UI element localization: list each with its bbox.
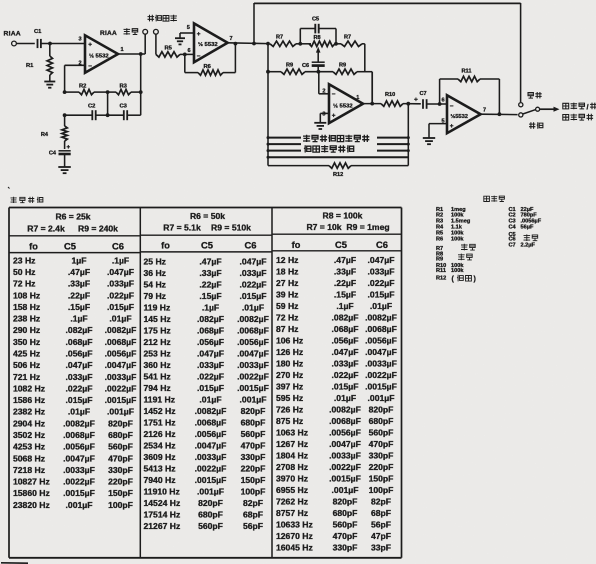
table 3 header xyxy=(272,210,402,250)
svg-text:6: 6 xyxy=(188,48,191,54)
svg-text:.0056µF: .0056µF xyxy=(63,442,95,452)
ground xyxy=(314,123,326,129)
svg-text:R11: R11 xyxy=(462,69,472,75)
svg-text:330pF: 330pF xyxy=(108,465,133,475)
svg-text:253 Hz: 253 Hz xyxy=(144,349,171,359)
wire U4 pin5 to ground xyxy=(429,124,447,138)
svg-text:50 Hz: 50 Hz xyxy=(13,267,35,277)
svg-text:.0068µF: .0068µF xyxy=(195,418,227,428)
svg-text:3502 Hz: 3502 Hz xyxy=(13,430,45,440)
svg-text:330pF: 330pF xyxy=(241,452,266,462)
R12 value （见表） xyxy=(452,275,476,283)
svg-text:425 Hz: 425 Hz xyxy=(13,349,40,359)
svg-text:56µF: 56µF xyxy=(521,225,534,231)
svg-text:.01µF: .01µF xyxy=(334,393,356,403)
svg-text:C6: C6 xyxy=(112,240,124,251)
svg-text:.015µF: .015µF xyxy=(197,383,224,393)
svg-text:R8 = 100k: R8 = 100k xyxy=(323,210,363,220)
svg-text:.0068µF: .0068µF xyxy=(237,326,269,336)
resistor R6 feedback xyxy=(185,44,236,76)
svg-text:R9 = 240k: R9 = 240k xyxy=(78,223,118,233)
svg-text:.068µF: .068µF xyxy=(197,326,224,336)
svg-text:8757 Hz: 8757 Hz xyxy=(276,508,308,518)
svg-text:.0068µF: .0068µF xyxy=(63,430,95,440)
node equalizer input terminal xyxy=(154,29,159,54)
svg-text:−: − xyxy=(197,53,201,60)
svg-text:fo: fo xyxy=(161,240,170,250)
svg-text:1µF: 1µF xyxy=(72,255,87,265)
svg-text:.01µF: .01µF xyxy=(68,407,90,417)
svg-text:C6: C6 xyxy=(376,239,388,250)
switch equalize contact xyxy=(519,113,523,117)
node bus left junction xyxy=(266,42,270,46)
ground xyxy=(423,138,435,144)
op-amp U1 half 5532 xyxy=(79,35,124,73)
svg-text:10827 Hz: 10827 Hz xyxy=(13,477,50,487)
svg-text:330pF: 330pF xyxy=(369,451,394,461)
svg-text:6: 6 xyxy=(442,97,445,103)
resistor R4 xyxy=(41,115,67,149)
capacitor C1 xyxy=(34,29,50,48)
ground xyxy=(175,38,185,44)
svg-text:1191 Hz: 1191 Hz xyxy=(144,395,176,405)
R7 value 见表 xyxy=(461,244,475,251)
svg-text:4253 Hz: 4253 Hz xyxy=(13,442,45,452)
svg-text:.22µF: .22µF xyxy=(68,290,90,300)
svg-text:.022µF: .022µF xyxy=(332,370,359,380)
svg-text:2382 Hz: 2382 Hz xyxy=(13,407,45,417)
svg-text:470pF: 470pF xyxy=(369,439,394,449)
wire bus line 3 xyxy=(267,149,410,152)
svg-text:R10: R10 xyxy=(385,92,395,98)
svg-text:R6 = 50k: R6 = 50k xyxy=(190,211,225,221)
svg-text:.033µF: .033µF xyxy=(107,279,134,289)
svg-text:180 Hz: 180 Hz xyxy=(276,359,303,369)
svg-text:−: − xyxy=(450,103,454,110)
value label 均衡 equalize xyxy=(529,122,543,128)
svg-text:.047µF: .047µF xyxy=(240,257,267,267)
wire bypass line to switch xyxy=(254,3,521,102)
svg-text:R9 = 1meg: R9 = 1meg xyxy=(346,222,389,232)
svg-text:.022µF: .022µF xyxy=(197,372,224,382)
C component list xyxy=(509,207,542,248)
svg-text:C3: C3 xyxy=(509,218,516,224)
svg-text:680pF: 680pF xyxy=(198,510,223,520)
svg-text:.001µF: .001µF xyxy=(107,407,134,417)
svg-text:560pF: 560pF xyxy=(241,429,266,439)
svg-text:7262 Hz: 7262 Hz xyxy=(276,497,308,507)
svg-text:½ 5532: ½ 5532 xyxy=(89,53,109,60)
svg-text:680pF: 680pF xyxy=(108,430,133,440)
svg-text:fo: fo xyxy=(29,241,38,251)
svg-text:15860 Hz: 15860 Hz xyxy=(13,488,50,498)
wire U2 pin5 + ground xyxy=(180,33,194,38)
svg-text:100pF: 100pF xyxy=(369,485,394,495)
wire rail to output node xyxy=(371,72,373,104)
svg-text:R12: R12 xyxy=(333,172,343,178)
svg-text:.015µF: .015µF xyxy=(240,291,267,301)
svg-text:.022µF: .022µF xyxy=(240,280,267,290)
svg-text:R6: R6 xyxy=(436,236,443,242)
resistor R9 xyxy=(266,63,333,75)
svg-text:.0056µF: .0056µF xyxy=(195,429,227,439)
svg-text:R5: R5 xyxy=(165,46,173,52)
svg-text:560pF: 560pF xyxy=(369,428,394,438)
svg-text:5068 Hz: 5068 Hz xyxy=(13,453,45,463)
svg-text:RIAA: RIAA xyxy=(4,31,21,38)
svg-text:.047µF: .047µF xyxy=(66,360,93,370)
svg-text:.0082µF: .0082µF xyxy=(63,418,95,428)
svg-text:27 Hz: 27 Hz xyxy=(276,278,298,288)
svg-text:R6 = 25k: R6 = 25k xyxy=(55,212,90,222)
svg-text:1: 1 xyxy=(356,95,359,101)
svg-text:470pF: 470pF xyxy=(241,441,266,451)
svg-text:72 Hz: 72 Hz xyxy=(276,313,298,323)
C6 value 见表 xyxy=(524,234,538,241)
svg-text:794 Hz: 794 Hz xyxy=(144,383,171,393)
svg-text:23 Hz: 23 Hz xyxy=(13,255,35,265)
svg-text:820pF: 820pF xyxy=(369,405,394,415)
svg-text:47pF: 47pF xyxy=(371,531,391,541)
svg-text:.001µF: .001µF xyxy=(240,395,267,405)
svg-text:R11: R11 xyxy=(436,268,446,274)
svg-text:330pF: 330pF xyxy=(333,543,358,553)
svg-text:.047µF: .047µF xyxy=(332,347,359,357)
op-amp U2 half 5532 xyxy=(187,23,233,62)
svg-text:470pF: 470pF xyxy=(333,531,358,541)
svg-text:.068µF: .068µF xyxy=(332,324,359,334)
wire xyxy=(48,42,85,46)
svg-text:½ 5532: ½ 5532 xyxy=(333,102,353,109)
svg-text:726 Hz: 726 Hz xyxy=(276,405,303,415)
svg-text:1751 Hz: 1751 Hz xyxy=(144,418,176,428)
svg-text:C5: C5 xyxy=(335,239,347,250)
svg-text:12670 Hz: 12670 Hz xyxy=(276,531,313,541)
svg-text:.082µF: .082µF xyxy=(197,314,224,324)
svg-text:.0033µF: .0033µF xyxy=(195,452,227,462)
svg-text:17514 Hz: 17514 Hz xyxy=(144,510,181,520)
resistor R12 xyxy=(268,163,408,178)
wire middle column xyxy=(107,92,109,115)
svg-text:820pF: 820pF xyxy=(241,406,266,416)
resistor R3 xyxy=(106,84,141,95)
svg-text:.0015µF: .0015µF xyxy=(329,474,361,484)
svg-text:R2: R2 xyxy=(79,84,86,90)
svg-text:.01µF: .01µF xyxy=(370,301,392,311)
svg-text:+: + xyxy=(332,112,336,119)
svg-text:1452 Hz: 1452 Hz xyxy=(144,406,176,416)
svg-text:10633 Hz: 10633 Hz xyxy=(276,520,313,530)
svg-text:.056µF: .056µF xyxy=(66,349,93,359)
svg-text:3: 3 xyxy=(79,37,82,43)
value label RIAA 输出 xyxy=(100,28,138,37)
svg-text:.001µF: .001µF xyxy=(332,485,359,495)
svg-text:.33µF: .33µF xyxy=(334,267,356,277)
svg-text:126 Hz: 126 Hz xyxy=(276,347,303,357)
svg-text:.0082µF: .0082µF xyxy=(237,314,269,324)
svg-text:.0022µF: .0022µF xyxy=(237,372,269,382)
svg-text:108 Hz: 108 Hz xyxy=(13,290,40,300)
svg-text:fo: fo xyxy=(292,240,301,250)
svg-text:.033µF: .033µF xyxy=(66,372,93,382)
svg-text:.0047µF: .0047µF xyxy=(237,349,269,359)
svg-text:1586 Hz: 1586 Hz xyxy=(13,395,45,405)
svg-text:.0082µF: .0082µF xyxy=(329,405,361,415)
svg-text:.15µF: .15µF xyxy=(68,302,90,312)
svg-text:875 Hz: 875 Hz xyxy=(276,416,303,426)
svg-text:.0022µF: .0022µF xyxy=(63,477,95,487)
svg-text:.1µF: .1µF xyxy=(336,301,353,311)
svg-text:.033µF: .033µF xyxy=(332,359,359,369)
svg-text:7: 7 xyxy=(230,36,233,42)
svg-text:R7 = 2.4k: R7 = 2.4k xyxy=(27,223,65,233)
potentiometer R8 xyxy=(309,35,341,46)
svg-text:16045 Hz: 16045 Hz xyxy=(276,543,313,553)
svg-text:150pF: 150pF xyxy=(369,474,394,484)
svg-text:.0047µF: .0047µF xyxy=(329,439,361,449)
svg-text:.0082µF: .0082µF xyxy=(105,325,137,335)
resistor R7 xyxy=(270,35,311,47)
capacitor C5 across R8 xyxy=(300,17,336,44)
svg-text:.033µF: .033µF xyxy=(368,267,395,277)
svg-text:541 Hz: 541 Hz xyxy=(144,372,171,382)
svg-text:.047µF: .047µF xyxy=(368,255,395,265)
svg-text:.056µF: .056µF xyxy=(197,337,224,347)
wire to U3 pin 2 xyxy=(319,72,329,94)
svg-text:.1µF: .1µF xyxy=(70,314,87,324)
svg-text:1.1k: 1.1k xyxy=(451,225,463,231)
table 2 rows xyxy=(144,257,269,532)
svg-text:59 Hz: 59 Hz xyxy=(276,301,298,311)
tables heading 元件值表 xyxy=(11,197,43,203)
svg-text:290 Hz: 290 Hz xyxy=(13,325,40,335)
svg-text:.0033µF: .0033µF xyxy=(237,360,269,370)
svg-text:R9: R9 xyxy=(436,256,443,262)
svg-text:6955 Hz: 6955 Hz xyxy=(276,485,308,495)
switch arm xyxy=(523,107,560,114)
svg-text:.0047µF: .0047µF xyxy=(63,453,95,463)
wire U2 output xyxy=(228,42,268,46)
svg-text:220pF: 220pF xyxy=(369,462,394,472)
ground xyxy=(58,167,71,173)
svg-text:.015µF: .015µF xyxy=(332,382,359,392)
svg-text:C2: C2 xyxy=(88,104,95,110)
svg-text:470pF: 470pF xyxy=(108,453,133,463)
svg-text:R3: R3 xyxy=(436,218,443,224)
resistor R7b xyxy=(341,35,365,47)
svg-text:R9 = 510k: R9 = 510k xyxy=(211,223,251,233)
svg-text:25 Hz: 25 Hz xyxy=(144,257,166,267)
svg-text:560pF: 560pF xyxy=(198,521,223,531)
svg-text:.0056µF: .0056µF xyxy=(237,337,269,347)
svg-text:23820 Hz: 23820 Hz xyxy=(13,500,50,510)
R component list xyxy=(436,207,471,281)
svg-text:.0022µF: .0022µF xyxy=(329,462,361,472)
svg-text:.022µF: .022µF xyxy=(66,383,93,393)
svg-text:.047µF: .047µF xyxy=(197,349,224,359)
svg-text:.0015µF: .0015µF xyxy=(63,488,95,498)
svg-text:2904 Hz: 2904 Hz xyxy=(13,418,45,428)
svg-text:1082 Hz: 1082 Hz xyxy=(13,383,45,393)
svg-text:R7 = 5.1k: R7 = 5.1k xyxy=(163,223,201,233)
svg-text:.47µF: .47µF xyxy=(68,267,90,277)
resistor R10 xyxy=(363,92,421,107)
wire U3 pin3 to ground xyxy=(320,113,329,122)
svg-text:.022µF: .022µF xyxy=(368,278,395,288)
svg-text:.0082µF: .0082µF xyxy=(195,406,227,416)
svg-text:68pF: 68pF xyxy=(371,508,391,518)
svg-text:RIAA: RIAA xyxy=(100,30,117,37)
svg-text:.0033µF: .0033µF xyxy=(63,465,95,475)
svg-text:.15µF: .15µF xyxy=(199,291,221,301)
svg-text:R1: R1 xyxy=(26,63,34,69)
svg-text:.033µF: .033µF xyxy=(240,268,267,278)
svg-text:1063 Hz: 1063 Hz xyxy=(276,428,308,438)
svg-text:.0068µF: .0068µF xyxy=(365,324,397,334)
svg-text:R7: R7 xyxy=(276,35,283,41)
svg-text:.0068µF: .0068µF xyxy=(105,337,137,347)
scan artifact bottom-left xyxy=(1,187,28,563)
svg-text:360 Hz: 360 Hz xyxy=(144,360,171,370)
svg-text:680pF: 680pF xyxy=(369,416,394,426)
table 2 header xyxy=(140,211,272,252)
svg-text:1.5meg: 1.5meg xyxy=(451,218,471,224)
svg-text:+: + xyxy=(88,42,92,49)
wiper arrow of R8 xyxy=(316,47,321,63)
svg-text:.33µF: .33µF xyxy=(68,279,90,289)
svg-text:½5532: ½5532 xyxy=(451,113,468,120)
svg-text:100pF: 100pF xyxy=(108,500,133,510)
svg-text:158 Hz: 158 Hz xyxy=(13,302,40,312)
svg-text:.01µF: .01µF xyxy=(242,303,264,313)
svg-text:.0047µF: .0047µF xyxy=(365,347,397,357)
svg-text:.015µF: .015µF xyxy=(107,302,134,312)
svg-text:56pF: 56pF xyxy=(371,520,391,530)
svg-text:.0056µF: .0056µF xyxy=(105,349,137,359)
svg-text:.01µF: .01µF xyxy=(109,314,131,324)
list heading 元件值 xyxy=(484,196,505,202)
svg-text:+: + xyxy=(414,97,418,104)
wire xyxy=(16,43,34,45)
svg-text:.001µF: .001µF xyxy=(66,500,93,510)
svg-text:560pF: 560pF xyxy=(108,442,133,452)
wire right column down xyxy=(364,44,366,72)
svg-text:C5: C5 xyxy=(64,240,76,251)
svg-text:72 Hz: 72 Hz xyxy=(13,279,35,289)
table borders xyxy=(9,208,402,558)
svg-text:.22µF: .22µF xyxy=(334,278,356,288)
svg-text:397 Hz: 397 Hz xyxy=(276,382,303,392)
svg-text:5413 Hz: 5413 Hz xyxy=(144,464,176,474)
svg-text:.082µF: .082µF xyxy=(332,313,359,323)
svg-text:.0047µF: .0047µF xyxy=(195,441,227,451)
svg-text:212 Hz: 212 Hz xyxy=(144,337,171,347)
svg-text:.22µF: .22µF xyxy=(199,280,221,290)
svg-text:.33µF: .33µF xyxy=(199,268,221,278)
svg-text:54 Hz: 54 Hz xyxy=(144,280,166,290)
svg-text:.47µF: .47µF xyxy=(199,257,221,267)
svg-text:C5: C5 xyxy=(201,239,213,250)
svg-text:238 Hz: 238 Hz xyxy=(13,314,40,324)
resistor R9b xyxy=(333,63,372,75)
value label 均衡输入 xyxy=(148,15,177,22)
table 1 rows xyxy=(13,255,136,509)
svg-text:.0056µF: .0056µF xyxy=(329,428,361,438)
svg-text:33pF: 33pF xyxy=(371,543,391,553)
svg-text:87 Hz: 87 Hz xyxy=(276,324,298,334)
svg-text:.0015µF: .0015µF xyxy=(237,383,269,393)
svg-text:C7: C7 xyxy=(420,91,427,97)
svg-text:C6: C6 xyxy=(302,63,309,69)
svg-text:150pF: 150pF xyxy=(108,488,133,498)
note 重复上述电路 xyxy=(304,145,354,152)
svg-text:18 Hz: 18 Hz xyxy=(276,267,298,277)
svg-text:.068µF: .068µF xyxy=(66,337,93,347)
svg-text:100pF: 100pF xyxy=(241,487,266,497)
resistor R2 xyxy=(63,84,108,95)
svg-text:3970 Hz: 3970 Hz xyxy=(276,474,308,484)
svg-text:C1: C1 xyxy=(34,29,42,35)
svg-text:3609 Hz: 3609 Hz xyxy=(144,452,176,462)
svg-text:.001µF: .001µF xyxy=(368,393,395,403)
capacitor C6 xyxy=(302,62,325,71)
svg-text:R4: R4 xyxy=(436,225,444,231)
svg-text:R4: R4 xyxy=(41,132,49,138)
svg-text:.0022µF: .0022µF xyxy=(195,464,227,474)
svg-text:1804 Hz: 1804 Hz xyxy=(276,451,308,461)
svg-text:820pF: 820pF xyxy=(108,418,133,428)
svg-text:506 Hz: 506 Hz xyxy=(13,360,40,370)
svg-text:12 Hz: 12 Hz xyxy=(276,255,298,265)
capacitor C2 xyxy=(63,104,108,121)
svg-text:C4: C4 xyxy=(509,225,517,231)
op-amp U3 half 5532 xyxy=(322,84,363,123)
node RIAA input xyxy=(4,31,21,46)
switch bypass contact xyxy=(519,103,523,107)
svg-text:.0033µF: .0033µF xyxy=(329,451,361,461)
wire bus line 1 xyxy=(267,136,410,139)
svg-text:+: + xyxy=(450,123,454,130)
svg-text:−: − xyxy=(332,91,336,98)
svg-text:/: / xyxy=(587,102,589,111)
svg-text:3: 3 xyxy=(322,112,325,118)
svg-text:C5: C5 xyxy=(312,17,319,23)
svg-text:.082µF: .082µF xyxy=(66,325,93,335)
svg-text:.1µF: .1µF xyxy=(112,255,129,265)
table 1 header xyxy=(9,212,140,253)
svg-text:.0056µF: .0056µF xyxy=(521,218,542,224)
svg-text:5: 5 xyxy=(187,25,190,31)
svg-text:106 Hz: 106 Hz xyxy=(276,336,303,346)
svg-text:.0068µF: .0068µF xyxy=(329,416,361,426)
node RIAA output terminal xyxy=(143,29,148,54)
resistor R11 feedback xyxy=(440,69,500,115)
svg-text:−: − xyxy=(88,63,92,70)
svg-text:.1µF: .1µF xyxy=(202,303,219,313)
svg-text:.0056µF: .0056µF xyxy=(365,336,397,346)
svg-text:680pF: 680pF xyxy=(333,508,358,518)
svg-text:1: 1 xyxy=(121,47,124,53)
svg-text:220pF: 220pF xyxy=(108,477,133,487)
svg-text:½ 5532: ½ 5532 xyxy=(198,41,218,48)
svg-text:350 Hz: 350 Hz xyxy=(13,337,40,347)
svg-text:220pF: 220pF xyxy=(241,464,266,474)
svg-text:1267 Hz: 1267 Hz xyxy=(276,439,308,449)
svg-text:820pF: 820pF xyxy=(198,498,223,508)
svg-text:2126 Hz: 2126 Hz xyxy=(144,429,176,439)
note 根据所要求的频数 xyxy=(303,135,369,142)
wire U1 pin2 branch xyxy=(65,65,85,92)
